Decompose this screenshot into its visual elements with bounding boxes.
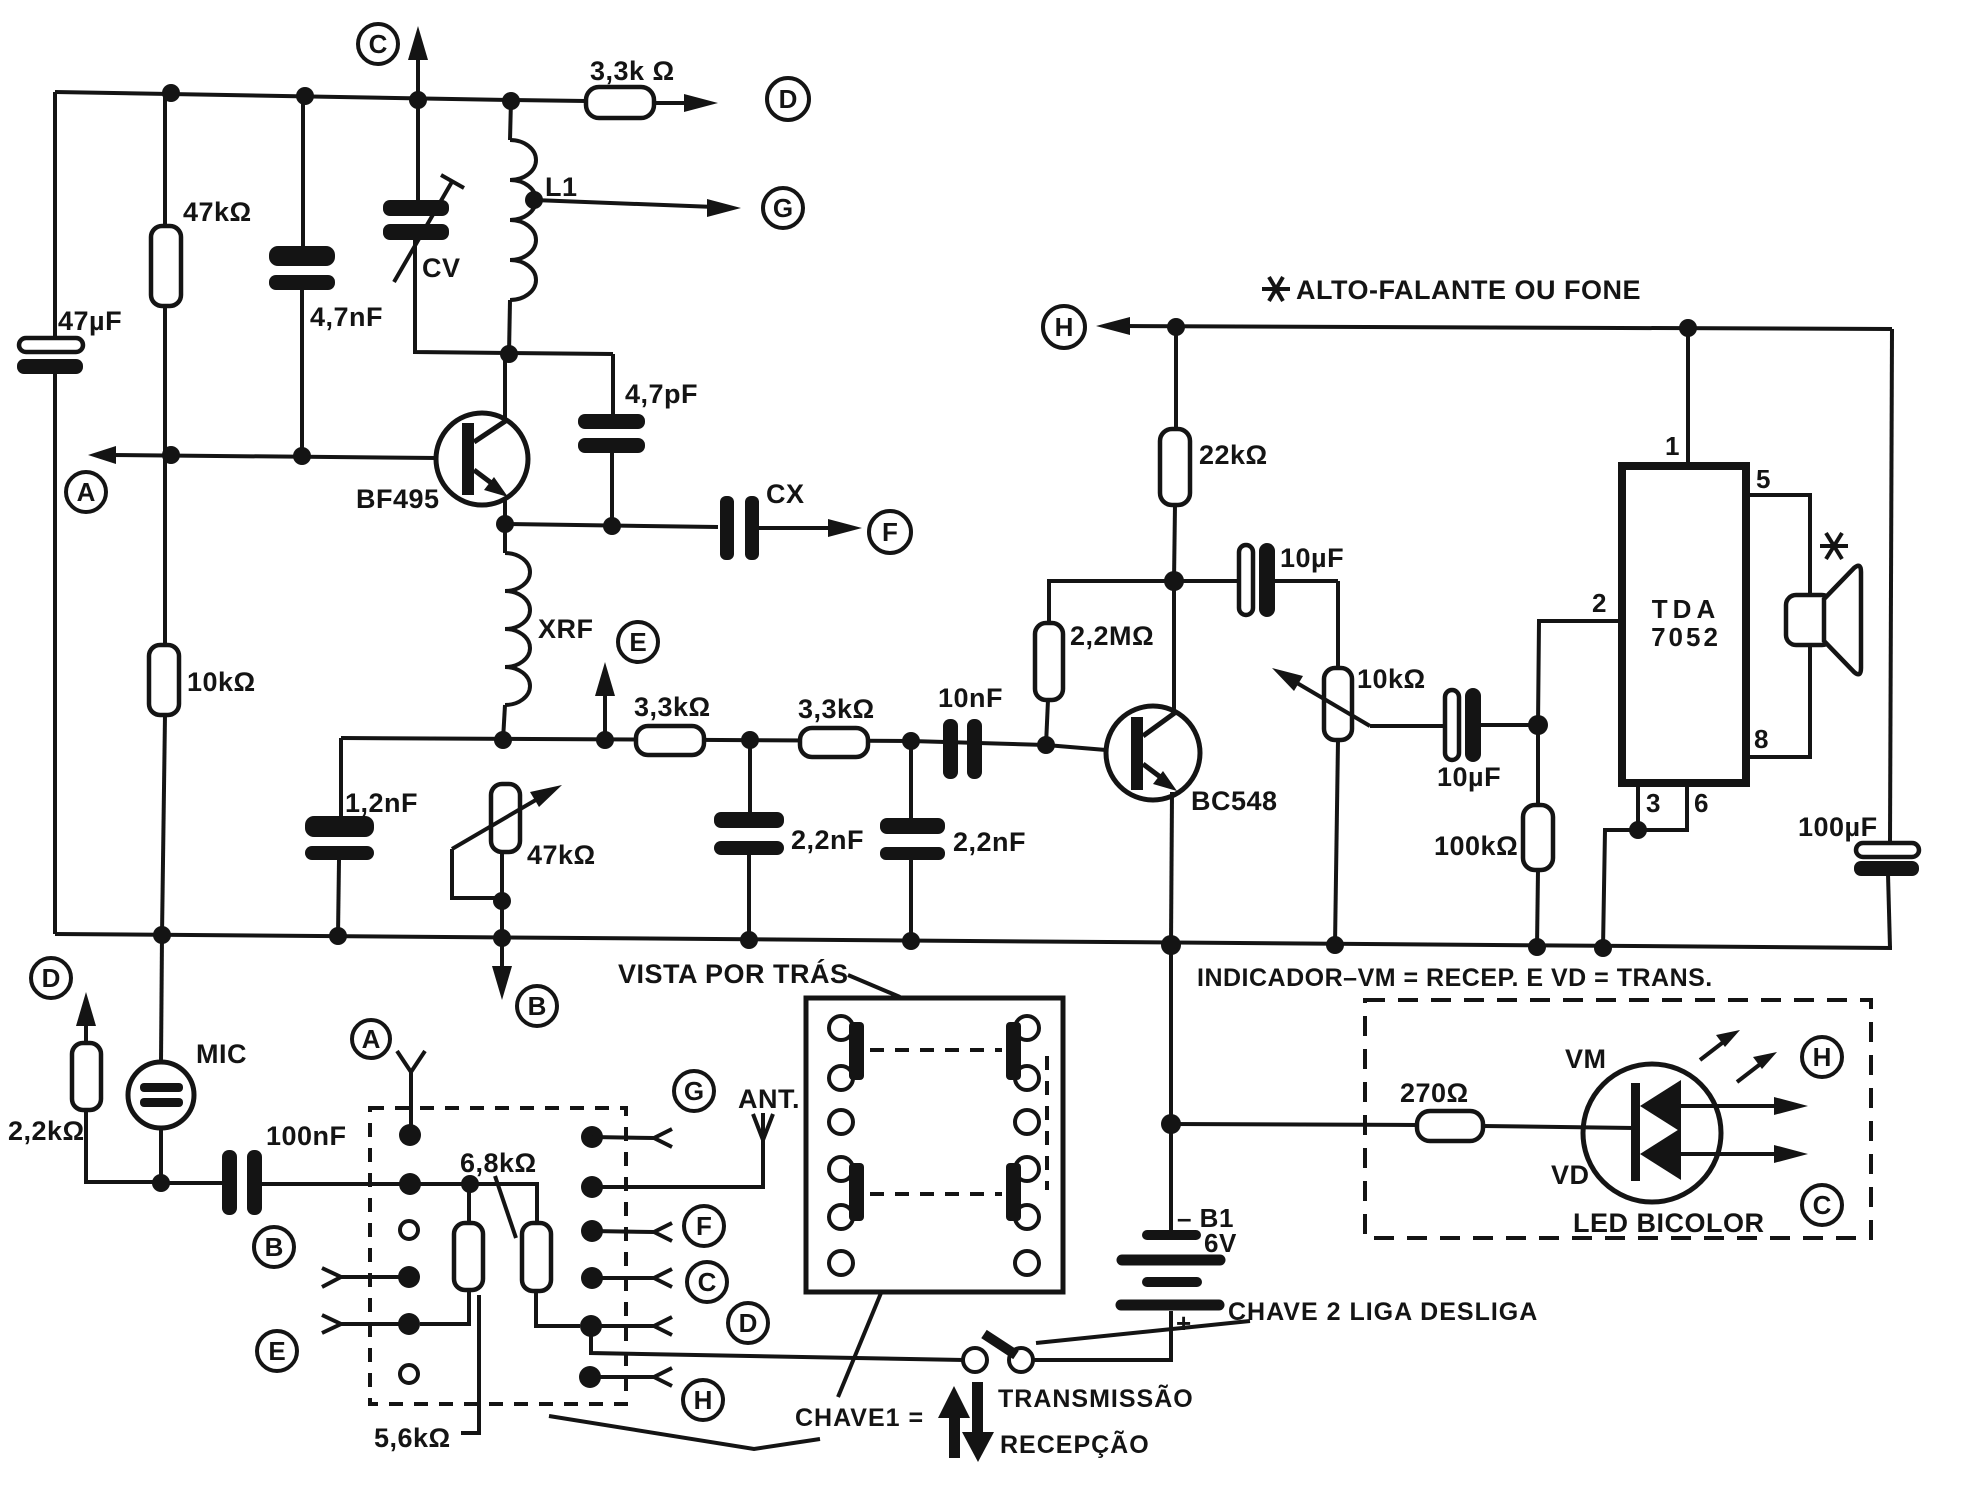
node: BC548 collector junction	[1164, 571, 1184, 591]
svg-text:VM: VM	[1565, 1044, 1607, 1074]
pin 3 (TDA)	[1638, 783, 1661, 830]
node: LED branch junction	[1161, 1114, 1181, 1134]
antenna lead (left column)	[397, 1051, 425, 1130]
svg-text:2,2nF: 2,2nF	[953, 827, 1026, 857]
resistor 3,3k (second, middle)	[798, 694, 875, 757]
inductor L1	[509, 100, 578, 354]
node A (box)	[352, 1020, 390, 1058]
svg-text:2,2nF: 2,2nF	[791, 825, 864, 855]
node G (top)	[763, 188, 803, 228]
node: pin2/100k junction	[1528, 715, 1548, 735]
label: TRANSMISSAO	[998, 1383, 1194, 1413]
wire: top supply rail	[55, 92, 512, 100]
capacitor 4,7pF	[578, 354, 698, 535]
pointer: box to CHAVE1 label	[549, 1293, 881, 1449]
svg-text:VISTA POR TRÁS: VISTA POR TRÁS	[618, 958, 849, 989]
label 5,6k pointer	[374, 1295, 479, 1453]
capacitor 4,7nF	[269, 246, 383, 332]
resistor 270R	[1400, 1078, 1634, 1141]
label: CHAVE1 =	[795, 1404, 924, 1432]
svg-text:2,2MΩ: 2,2MΩ	[1070, 621, 1154, 651]
svg-text:10µF: 10µF	[1280, 543, 1344, 573]
svg-text:5: 5	[1756, 464, 1771, 494]
capacitor 2,2nF (second)	[880, 741, 1026, 941]
svg-text:3,3kΩ: 3,3kΩ	[634, 692, 711, 722]
resistor 3,3k (collector, top)	[512, 56, 675, 118]
svg-text:CHAVE1 =: CHAVE1 =	[795, 1404, 924, 1432]
pin 2 label	[1592, 588, 1607, 618]
wire: L1 tap to G terminal	[525, 191, 741, 217]
switch contacts: bottom singles	[829, 1251, 1039, 1275]
switch contacts: top-left pair	[829, 1016, 864, 1090]
svg-text:C: C	[698, 1267, 717, 1297]
svg-text:ALTO-FALANTE OU FONE: ALTO-FALANTE OU FONE	[1296, 275, 1641, 305]
label: LED BICOLOR	[1573, 1208, 1765, 1238]
svg-text:10kΩ: 10kΩ	[1357, 664, 1426, 694]
label VM	[1565, 1044, 1607, 1074]
svg-text:3,3kΩ: 3,3kΩ	[798, 694, 875, 724]
svg-text:F: F	[696, 1211, 712, 1241]
connector: H lead	[590, 1368, 672, 1386]
resistor 10k (lower divider)	[149, 645, 256, 715]
capacitor CV (variable, tuning)	[383, 100, 613, 354]
svg-text:2,2kΩ: 2,2kΩ	[8, 1116, 85, 1146]
capacitor 2,2nF (first)	[714, 740, 864, 940]
node: mic/wire junction	[152, 1174, 170, 1192]
IC U1 TDA7052	[1622, 466, 1746, 783]
wire: right vertical rail	[1888, 329, 1892, 948]
resistor 47k (upper divider)	[151, 197, 252, 306]
node F (box)	[684, 1206, 724, 1246]
battery B1 6V	[1121, 945, 1237, 1338]
pin 1 (TDA)	[1665, 319, 1697, 466]
switch contacts: bottom-right pair	[1006, 1157, 1039, 1229]
svg-text:1,2nF: 1,2nF	[345, 788, 418, 818]
node D (box)	[728, 1303, 768, 1343]
wire: x165 vertical (bias divider)	[161, 94, 165, 1063]
resistor 2,2k (mic feed)	[8, 992, 161, 1182]
svg-text:A: A	[362, 1024, 381, 1054]
node B (box)	[254, 1227, 294, 1267]
LED bicolor	[1583, 1064, 1808, 1202]
wire: left vertical rail	[53, 92, 57, 934]
node H (box)	[683, 1380, 723, 1420]
inductor XRF	[503, 524, 594, 740]
microphone MIC	[128, 1039, 247, 1182]
svg-text:VD: VD	[1551, 1160, 1590, 1190]
svg-text:RECEPÇÃO: RECEPÇÃO	[1000, 1429, 1150, 1459]
wire: B terminal arrow (below rail)	[492, 938, 512, 1000]
dashed links inside switch box	[870, 1050, 1047, 1194]
svg-text:2: 2	[1592, 588, 1607, 618]
node F	[869, 511, 911, 553]
svg-text:TDA: TDA	[1652, 594, 1720, 624]
resistor 2,2M	[1035, 581, 1174, 754]
capacitor 1,2nF	[305, 738, 418, 936]
svg-text:3: 3	[1646, 788, 1661, 818]
svg-text:47kΩ: 47kΩ	[527, 840, 596, 870]
svg-text:B: B	[528, 991, 547, 1021]
node: bottom rail junctions	[153, 926, 1546, 956]
wire: switched supply to chave 2	[591, 1326, 964, 1360]
node: XRF bottom junction	[494, 731, 512, 749]
capacitor 10nF	[938, 683, 1003, 779]
connector: G lead	[592, 1129, 672, 1147]
wire: to TDA pin 2	[1538, 621, 1622, 725]
svg-text:E: E	[268, 1336, 285, 1366]
svg-text:D: D	[779, 84, 798, 114]
node: 6,8k top junction	[461, 1175, 479, 1193]
dashed enclosure: LED indicator	[1365, 1000, 1871, 1238]
resistor 47k (trimmer)	[452, 784, 596, 938]
star note: speaker asterisk	[1820, 533, 1848, 559]
svg-text:5,6kΩ: 5,6kΩ	[374, 1423, 451, 1453]
svg-text:H: H	[694, 1385, 713, 1415]
label: VISTA POR TRAS	[618, 958, 900, 997]
speaker LS	[1786, 566, 1861, 675]
capacitor 100uF	[1798, 812, 1919, 876]
pin 5 (TDA)	[1746, 464, 1810, 595]
capacitor CX	[720, 479, 862, 560]
node: junction mid bus 1	[741, 731, 759, 749]
svg-text:+: +	[1176, 1308, 1192, 1338]
svg-text:47kΩ: 47kΩ	[183, 197, 252, 227]
svg-text:6: 6	[1694, 788, 1709, 818]
svg-text:G: G	[773, 193, 793, 223]
svg-text:10µF: 10µF	[1437, 762, 1501, 792]
antenna ANT (right)	[592, 1084, 800, 1187]
svg-text:3,3k Ω: 3,3k Ω	[590, 56, 675, 86]
capacitor 100nF	[222, 1121, 347, 1215]
transistor Q1 BF495	[356, 354, 528, 524]
switch chave 2	[963, 1311, 1171, 1372]
potentiometer 10k (volume)	[1272, 581, 1445, 945]
node H (led)	[1802, 1037, 1842, 1077]
node G (box)	[674, 1071, 714, 1111]
resistor 6,8k (first)	[420, 1184, 483, 1324]
svg-text:D: D	[739, 1308, 758, 1338]
svg-text:INDICADOR–VM = RECEP. E VD =: INDICADOR–VM = RECEP. E VD = TRANS.	[1197, 964, 1713, 992]
node D (bottom left)	[31, 958, 71, 998]
node B (below rail)	[517, 986, 557, 1026]
svg-text:C: C	[369, 29, 388, 59]
wire: base wire to A terminal	[88, 446, 437, 464]
switch contacts: top-right pair	[1006, 1016, 1039, 1090]
wire: bottom ground rail	[55, 934, 1892, 948]
node E	[618, 622, 658, 662]
svg-text:C: C	[1813, 1190, 1832, 1220]
svg-text:B: B	[265, 1232, 284, 1262]
svg-text:A: A	[77, 477, 96, 507]
switch S1 rear-view box	[806, 998, 1063, 1292]
label: INDICADOR	[1197, 964, 1713, 992]
contact dots: left column	[398, 1124, 421, 1383]
label: RECEPCAO	[1000, 1429, 1150, 1459]
svg-text:100µF: 100µF	[1798, 812, 1878, 842]
switch contacts: bottom-left pair	[829, 1157, 864, 1229]
star note: ALTO-FALANTE OU FONE	[1262, 275, 1641, 305]
label: CHAVE 2 LIGA DESLIGA	[1036, 1298, 1538, 1343]
svg-text:100kΩ: 100kΩ	[1434, 831, 1518, 861]
svg-text:F: F	[882, 517, 898, 547]
svg-text:47µF: 47µF	[58, 306, 122, 336]
connector: D lead	[591, 1317, 672, 1335]
switch contacts: middle singles	[829, 1110, 1039, 1134]
svg-text:CHAVE 2 LIGA DESLIGA: CHAVE 2 LIGA DESLIGA	[1228, 1298, 1538, 1326]
svg-text:6V: 6V	[1204, 1228, 1237, 1258]
LED light arrows	[1700, 1030, 1777, 1082]
connector: C lead	[592, 1269, 672, 1287]
svg-text:10kΩ: 10kΩ	[187, 667, 256, 697]
capacitor 10uF (second)	[1437, 688, 1538, 792]
svg-text:7052: 7052	[1651, 622, 1721, 652]
node: pin3/6 junction to ground	[1594, 821, 1647, 957]
connector: F lead	[592, 1223, 672, 1241]
node: junction CV/L1 bottom	[500, 345, 518, 363]
wire: E terminal arrow	[595, 662, 615, 749]
svg-text:D: D	[42, 963, 61, 993]
node E (box)	[257, 1331, 297, 1371]
svg-text:TRANSMISSÃO: TRANSMISSÃO	[998, 1383, 1194, 1413]
node: junction mid bus 2	[902, 732, 920, 750]
pin 8 (TDA)	[1746, 645, 1810, 757]
pin 6 (TDA)	[1638, 783, 1709, 830]
capacitor 47uF (electrolytic, left rail)	[17, 306, 122, 374]
dashed enclosure: chave 1 contacts	[370, 1108, 626, 1404]
svg-text:4,7pF: 4,7pF	[625, 379, 698, 409]
wire: emitter line to CX	[505, 524, 718, 527]
wire: to D terminal (top)	[654, 94, 718, 112]
svg-text:CX: CX	[766, 479, 805, 509]
resistor 6,8k (second)	[460, 1148, 580, 1326]
svg-text:G: G	[684, 1076, 704, 1106]
wire: x303 vertical with 4,7nF	[302, 96, 303, 455]
node C (led)	[1802, 1185, 1842, 1225]
svg-text:L1: L1	[545, 172, 578, 202]
wire: audio line y1183	[161, 1183, 537, 1223]
svg-text:10nF: 10nF	[938, 683, 1003, 713]
svg-text:H: H	[1813, 1042, 1832, 1072]
connector: E lead	[322, 1315, 400, 1333]
svg-text:BC548: BC548	[1191, 786, 1278, 816]
wire: C terminal arrow up from rail	[408, 26, 428, 100]
svg-text:ANT.: ANT.	[738, 1084, 800, 1114]
label VD	[1551, 1160, 1590, 1190]
node: A-wire junctions	[162, 446, 311, 465]
wire: middle bus y740	[341, 738, 1046, 745]
svg-text:100nF: 100nF	[266, 1121, 347, 1151]
connector: B lead	[322, 1268, 400, 1287]
node C (box)	[687, 1262, 727, 1302]
svg-text:LED BICOLOR: LED BICOLOR	[1573, 1208, 1765, 1238]
node C (top)	[358, 24, 398, 64]
node A (top left)	[66, 472, 106, 512]
wire: H rail (speaker supply)	[1096, 317, 1892, 335]
resistor 100k	[1434, 725, 1553, 947]
svg-text:BF495: BF495	[356, 484, 440, 514]
svg-text:1: 1	[1665, 431, 1680, 461]
resistor 3,3k (first, middle)	[634, 692, 711, 755]
svg-text:6,8kΩ: 6,8kΩ	[460, 1148, 537, 1178]
node: emitter junction	[496, 515, 514, 533]
node H (top)	[1043, 306, 1085, 348]
symbol: recepcao down arrow	[962, 1382, 994, 1462]
svg-text:22kΩ: 22kΩ	[1199, 440, 1268, 470]
svg-text:4,7nF: 4,7nF	[310, 302, 383, 332]
symbol: transmissao up arrow	[938, 1386, 970, 1458]
node D (top)	[767, 78, 809, 120]
wire: LED feed	[1171, 1124, 1417, 1125]
transistor Q2 BC548	[1046, 581, 1278, 945]
contact dots: right column	[579, 1126, 603, 1388]
capacitor 10uF (coupling, first)	[1174, 543, 1344, 617]
svg-text:270Ω: 270Ω	[1400, 1078, 1469, 1108]
svg-text:XRF: XRF	[538, 614, 594, 644]
svg-text:E: E	[629, 627, 646, 657]
svg-text:H: H	[1055, 312, 1074, 342]
resistor 22k	[1160, 318, 1268, 581]
svg-text:CV: CV	[422, 253, 461, 283]
node: top rail junctions	[162, 84, 520, 110]
svg-text:8: 8	[1754, 724, 1769, 754]
svg-text:MIC: MIC	[196, 1039, 247, 1069]
